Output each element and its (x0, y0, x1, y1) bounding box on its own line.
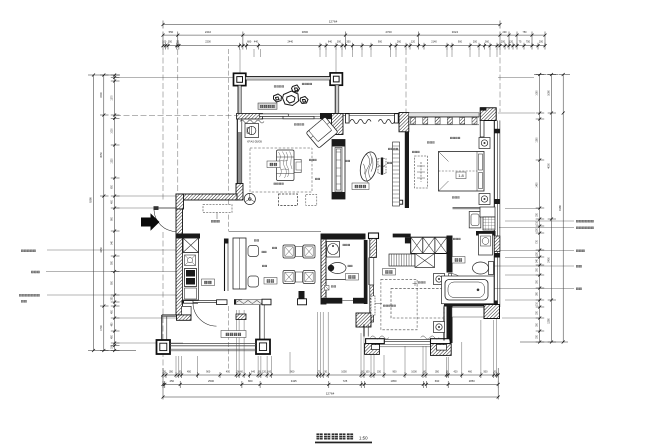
svg-text:1270: 1270 (112, 95, 114, 101)
svg-text:100: 100 (365, 370, 370, 373)
bed2 west wall hatch lower (370, 285, 374, 322)
leisure chairs (378, 158, 386, 175)
svg-text:860: 860 (248, 379, 253, 383)
svg-text:350: 350 (169, 370, 174, 373)
svg-text:1:50: 1:50 (359, 436, 368, 441)
svg-text:440: 440 (254, 41, 259, 44)
master door jamb (398, 200, 403, 204)
svg-text:1060: 1060 (548, 90, 551, 96)
svg-text:450: 450 (226, 370, 231, 373)
north wall: living NE block (320, 113, 335, 119)
bed2 east wall (447, 236, 469, 344)
svg-text:640: 640 (328, 41, 333, 44)
master west wall (398, 132, 409, 208)
balcony column NW (234, 73, 246, 85)
svg-text:350: 350 (168, 41, 173, 44)
master toilet (473, 262, 494, 275)
bar stools (248, 246, 259, 257)
svg-text:12764: 12764 (326, 392, 335, 396)
bed2 platform dashed (381, 279, 417, 330)
service balcony door (193, 301, 217, 327)
dimension chain top (163, 21, 545, 50)
svg-text:3800: 3800 (302, 30, 309, 34)
svg-text:1050: 1050 (341, 370, 347, 373)
bed2 door (449, 274, 452, 293)
north wall west segment (hatched) (237, 114, 265, 124)
svg-text:1260: 1260 (537, 137, 539, 143)
master bedroom north window (409, 113, 480, 125)
svg-text:350: 350 (346, 41, 351, 44)
svg-text:9280: 9280 (89, 197, 93, 203)
guest bath toilet (328, 263, 346, 274)
guest bath washbasin (327, 242, 340, 258)
svg-text:450: 450 (170, 379, 175, 383)
service balcony label (221, 331, 246, 338)
balcony label (258, 103, 277, 109)
dining south pier (234, 299, 242, 304)
dining south window (236, 291, 307, 305)
walk-in label (452, 257, 465, 264)
bed2 west wall hatch upper (370, 239, 377, 258)
kitchen-dining divider wall (224, 239, 229, 292)
svg-text:550: 550 (169, 30, 174, 34)
svg-text:1950: 1950 (391, 379, 397, 383)
title 平面布置图 (315, 433, 372, 443)
guest bath south wall (321, 298, 364, 304)
balcony east wall (336, 85, 339, 113)
outside sill below bath (452, 308, 484, 318)
svg-text:900: 900 (290, 370, 295, 373)
bed2 door jamb cap (369, 233, 379, 239)
svg-text:200: 200 (473, 41, 478, 44)
living west wall (237, 119, 242, 184)
dining floor boundary line (229, 230, 321, 232)
svg-text:200: 200 (539, 41, 544, 44)
kitchen label (202, 279, 215, 286)
entry arrow (141, 213, 160, 231)
svg-text:2440: 2440 (288, 41, 294, 44)
bookshelf at master west (393, 142, 400, 206)
east wall (480, 121, 500, 308)
svg-text:750: 750 (526, 41, 531, 44)
master bath shelf box (480, 207, 495, 217)
centerline kitchen divider (228, 306, 230, 371)
entry west corner block (176, 194, 184, 209)
leader labels left (46, 78, 237, 344)
svg-text:1700: 1700 (100, 325, 103, 331)
coffee table (279, 194, 298, 206)
svg-text:680: 680 (247, 41, 252, 44)
svg-text:460: 460 (468, 370, 473, 373)
bed2 bed dashed (391, 289, 444, 318)
svg-text:100: 100 (162, 41, 167, 44)
balcony column NE (330, 73, 342, 85)
svg-text:1.8: 1.8 (458, 173, 464, 178)
svg-text:3050: 3050 (100, 152, 103, 158)
living label (267, 161, 280, 168)
west corner block (236, 184, 243, 201)
entry door (154, 206, 177, 231)
north wall window (leisure) (343, 113, 399, 123)
bed2 south wall (366, 336, 451, 347)
balcony north wall (246, 77, 330, 80)
balcony sliding door (259, 114, 332, 119)
svg-text:2200: 2200 (205, 41, 211, 44)
bed2 west wall mid (369, 258, 374, 286)
svg-text:2850: 2850 (469, 379, 475, 383)
svg-text:120: 120 (262, 370, 267, 373)
kitchen west wall (176, 209, 183, 315)
wall to SE column (260, 305, 264, 340)
guest bath east wall (364, 240, 368, 304)
svg-text:500: 500 (483, 370, 488, 373)
svg-text:350: 350 (435, 370, 440, 373)
svg-text:420: 420 (453, 370, 458, 373)
svg-text:360: 360 (485, 41, 490, 44)
north wall block at master west (399, 113, 409, 132)
master bed (439, 152, 485, 192)
balcony plants (274, 85, 309, 106)
svg-text:1060: 1060 (537, 90, 539, 96)
svg-text:640: 640 (251, 370, 256, 373)
svg-text:750: 750 (523, 31, 528, 34)
svg-text:1450: 1450 (537, 182, 539, 188)
guest bath west wall (321, 234, 326, 304)
master bath grid cabinet (483, 217, 495, 230)
bath divider bar (476, 231, 496, 236)
dimension chain bottom (163, 368, 498, 400)
bed2 nightstands (434, 274, 445, 333)
dining label (264, 278, 277, 285)
service balcony SE column (256, 340, 270, 355)
living rug (250, 148, 312, 192)
corridor wall above wardrobes (393, 234, 411, 244)
svg-text:12764: 12764 (329, 20, 338, 24)
floor lamp (244, 193, 255, 204)
svg-text:3425: 3425 (291, 379, 297, 383)
TV on bed2 west wall (371, 296, 375, 315)
TV unit (332, 140, 345, 200)
extension lines bottom (163, 232, 496, 374)
corridor wardrobe xboxes (411, 237, 447, 253)
svg-text:4000: 4000 (548, 163, 551, 169)
bed2 label (383, 269, 396, 276)
plant leader texts (274, 85, 284, 87)
svg-text:1280: 1280 (548, 318, 551, 324)
shower line (327, 279, 348, 281)
side table (294, 160, 301, 173)
bar counter (233, 238, 246, 289)
svg-text:450: 450 (187, 370, 192, 373)
kitchen top bar (176, 234, 200, 239)
leisure oval table (357, 150, 379, 184)
balcony rails (170, 344, 256, 351)
master bath south wall (444, 301, 498, 307)
guest bath north wall (321, 234, 360, 240)
entry north wall (176, 194, 237, 200)
master 1.8 label (456, 172, 466, 179)
svg-text:900: 900 (392, 370, 397, 373)
entry shoe cabinet xbox (183, 238, 199, 253)
dresser striped (389, 254, 435, 268)
svg-text:4150: 4150 (100, 247, 103, 253)
entry console (203, 205, 232, 213)
master bath washbasin (469, 212, 481, 228)
svg-text:300: 300 (337, 41, 342, 44)
svg-text:1500: 1500 (100, 92, 103, 98)
svg-text:2140: 2140 (431, 41, 437, 44)
kitchen SW corner block (177, 315, 192, 320)
svg-text:120: 120 (411, 41, 416, 44)
svg-text:900: 900 (458, 41, 463, 44)
SE corner block (484, 305, 500, 319)
sofa (277, 150, 295, 181)
kitchen counter (183, 253, 199, 301)
bed2 SW base block (365, 344, 380, 355)
step block below bath (356, 313, 371, 327)
svg-text:900: 900 (206, 370, 211, 373)
wall bath to bed2 (444, 307, 450, 341)
NE corner column (480, 108, 496, 121)
svg-text:3024: 3024 (452, 30, 459, 34)
svg-text:1000: 1000 (112, 128, 114, 134)
wall down to south (364, 325, 368, 337)
pier block below (236, 314, 246, 320)
dining south wall piece (217, 300, 228, 305)
svg-text:150: 150 (377, 370, 382, 373)
svg-text:200: 200 (503, 31, 508, 34)
svg-text:XF/AS-D5/OB: XF/AS-D5/OB (247, 141, 262, 144)
AC unit living NW (245, 124, 259, 138)
master TV cabinet dashed (415, 156, 428, 188)
pier below NE block (480, 121, 484, 138)
dimension chain left (88, 75, 136, 351)
master nightstands (479, 138, 490, 205)
leader labels right (489, 78, 574, 319)
service balcony SW column (157, 340, 171, 354)
svg-text:9180: 9180 (558, 205, 562, 211)
svg-text:725: 725 (343, 379, 348, 383)
glass partition master bath (453, 207, 481, 209)
svg-text:2500: 2500 (208, 379, 214, 383)
column living NE (hatched) (332, 114, 344, 135)
svg-text:260: 260 (397, 41, 402, 44)
svg-text:690: 690 (435, 379, 440, 383)
service balcony west wall (162, 315, 177, 341)
svg-text:120: 120 (509, 41, 514, 44)
svg-text:2450: 2450 (548, 257, 551, 263)
washer nook (182, 306, 192, 315)
guest bath label (346, 274, 359, 281)
balcony west wall (238, 86, 241, 114)
svg-text:900: 900 (378, 41, 383, 44)
svg-text:160: 160 (267, 370, 272, 373)
svg-text:1220: 1220 (112, 158, 114, 164)
svg-text:200: 200 (501, 41, 506, 44)
kitchen lower cabinet bar (182, 300, 199, 303)
armchair rotated (306, 117, 338, 148)
dining chairs (283, 245, 315, 284)
washer (479, 234, 493, 256)
svg-text:1000: 1000 (411, 370, 417, 373)
svg-text:2410: 2410 (205, 30, 212, 34)
insulation squiggle (240, 120, 264, 123)
dimension chain right (520, 75, 570, 343)
extension lines top (163, 49, 500, 231)
bathtub (442, 276, 495, 304)
svg-text:2700: 2700 (385, 30, 392, 34)
bed2 SE base block (431, 344, 452, 356)
